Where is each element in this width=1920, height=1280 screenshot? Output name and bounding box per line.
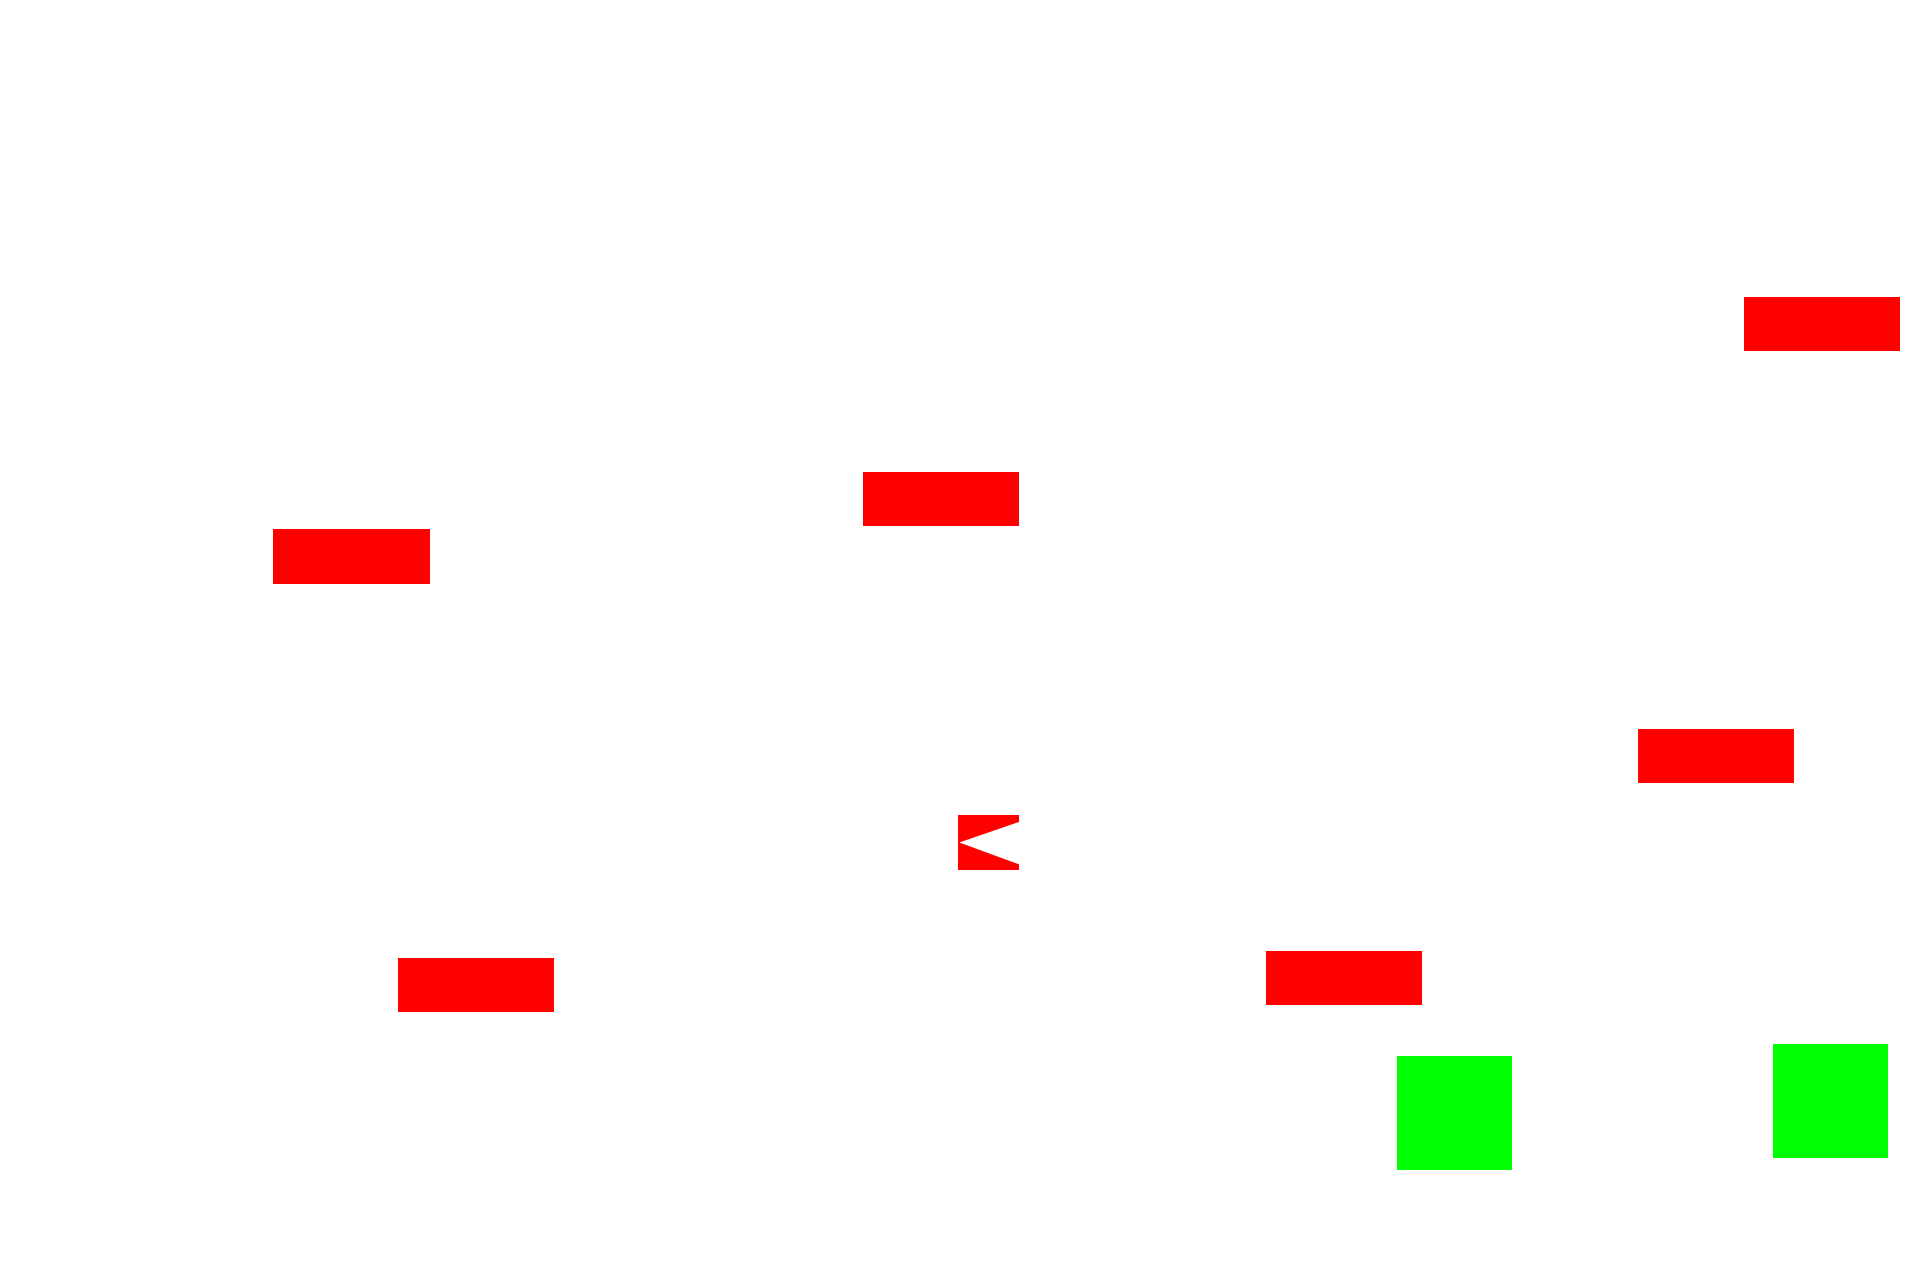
red flag marker (center, notched pennant) <box>958 815 1019 870</box>
green square 1 (bottom center-right) <box>1397 1056 1512 1170</box>
red rectangle 3 (middle left) <box>273 529 430 584</box>
red rectangle 1 (top right) <box>1744 297 1900 351</box>
red rectangle 5 (bottom left) <box>398 958 554 1012</box>
red rectangle 2 (upper center) <box>863 472 1019 526</box>
red rectangle 4 (middle right) <box>1638 729 1794 783</box>
red rectangle 6 (bottom center-right) <box>1266 951 1422 1005</box>
green square 2 (bottom right) <box>1773 1044 1888 1158</box>
